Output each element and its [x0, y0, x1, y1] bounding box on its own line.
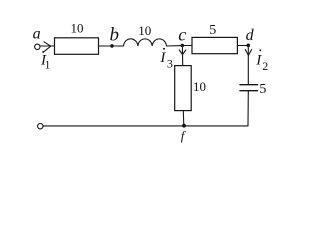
node d junction dot: [247, 44, 251, 48]
current arrow I2 (down at d): [245, 50, 251, 56]
svg-text:d: d: [246, 27, 255, 44]
wire node d down to capacitor: [247, 46, 249, 85]
label I2 dot: [259, 49, 261, 51]
node b junction dot: [110, 44, 114, 48]
resistor R1 box: [55, 38, 99, 55]
svg-text:b: b: [110, 25, 120, 46]
svg-text:f: f: [181, 128, 187, 143]
svg-text:1: 1: [45, 60, 51, 72]
wire node c to R2: [184, 45, 192, 47]
wire R3 to node f: [182, 111, 185, 126]
node c junction dot: [181, 44, 185, 48]
svg-text:10: 10: [71, 21, 84, 36]
terminal (bottom-left circle): [38, 124, 43, 129]
svg-text:I: I: [159, 50, 166, 66]
svg-text:I: I: [255, 52, 262, 68]
svg-text:10: 10: [138, 23, 151, 38]
inductor L1 (3 humps): [124, 39, 167, 46]
wire node c down (I3 branch): [181, 46, 183, 66]
wire a to R1: [40, 45, 54, 47]
svg-text:2: 2: [262, 59, 268, 73]
wire R2 to node d: [237, 45, 248, 47]
capacitor C1 top plate: [240, 84, 258, 86]
capacitor C1 bottom plate: [240, 90, 258, 92]
resistor R2 box: [192, 37, 237, 53]
wire R1 to node b to L1: [99, 45, 124, 47]
current arrow I1 (on wire, pointing right): [44, 42, 51, 52]
node f junction dot: [182, 124, 186, 128]
svg-text:5: 5: [259, 82, 266, 97]
resistor R3 box (vertical): [175, 66, 192, 111]
label I1 dot: [42, 51, 44, 53]
current arrow I3 (down at c): [179, 50, 186, 55]
svg-text:3: 3: [167, 56, 173, 70]
svg-text:c: c: [178, 24, 186, 44]
label I3 dot: [163, 48, 165, 50]
wire L1 to node c: [167, 45, 183, 47]
svg-text:10: 10: [193, 79, 206, 94]
svg-text:a: a: [33, 25, 41, 42]
bottom rail wire: [43, 125, 248, 127]
wire capacitor to bottom rail: [247, 91, 249, 126]
terminal a (input circle): [35, 44, 40, 49]
svg-text:5: 5: [209, 23, 216, 38]
